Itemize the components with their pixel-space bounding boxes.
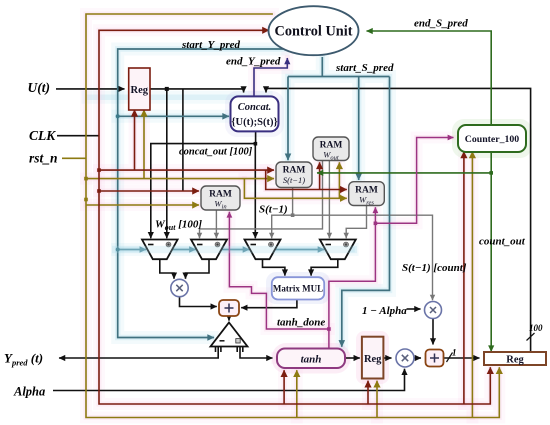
svg-text:Reg: Reg — [364, 354, 382, 365]
svg-text:RAM: RAM — [283, 166, 306, 176]
svg-text:U(t): U(t) — [28, 80, 51, 95]
svg-text:Wout [100]: Wout [100] — [155, 219, 202, 233]
svg-text:Concat.: Concat. — [238, 102, 272, 113]
svg-text:tanh_done: tanh_done — [277, 317, 325, 329]
svg-text:start_Y_pred: start_Y_pred — [181, 39, 241, 51]
svg-text:{U(t);S(t)}: {U(t);S(t)} — [231, 117, 277, 128]
svg-text:end_S_pred: end_S_pred — [414, 18, 468, 30]
svg-text:S(t−1): S(t−1) — [283, 175, 305, 185]
svg-text:Reg: Reg — [131, 85, 149, 96]
svg-text:S(t−1) [count]: S(t−1) [count] — [402, 262, 467, 274]
svg-text:start_S_pred: start_S_pred — [335, 62, 394, 74]
svg-text:tanh: tanh — [301, 354, 322, 366]
svg-text:Reg: Reg — [506, 355, 524, 366]
svg-text:count_out: count_out — [479, 236, 526, 248]
svg-text:Counter_100: Counter_100 — [465, 134, 520, 145]
svg-text:Control Unit: Control Unit — [275, 24, 353, 40]
svg-text:rst_n: rst_n — [29, 151, 58, 166]
svg-text:1 − Alpha: 1 − Alpha — [362, 305, 407, 317]
svg-text:Matrix MUL: Matrix MUL — [273, 284, 323, 294]
svg-text:Ypred (t): Ypred (t) — [4, 351, 43, 368]
svg-text:100: 100 — [529, 323, 543, 333]
svg-text:concat_out [100]: concat_out [100] — [179, 147, 253, 158]
svg-text:CLK: CLK — [29, 128, 56, 143]
svg-text:1: 1 — [452, 348, 457, 358]
svg-text:Alpha: Alpha — [13, 385, 45, 399]
svg-text:S(t−1): S(t−1) — [259, 204, 288, 216]
svg-text:end_Y_pred: end_Y_pred — [226, 56, 281, 68]
